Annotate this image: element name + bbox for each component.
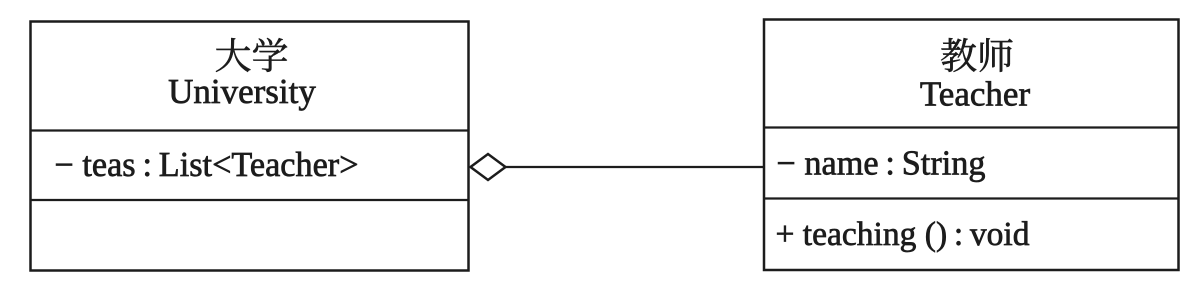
class box Teacher (outer rect) [764,20,1179,271]
divider University name/attributes [31,129,469,131]
svg-text:− name : String: − name : String [777,145,986,183]
svg-text:− teas : List<Teacher>: − teas : List<Teacher> [55,146,359,184]
aggregation diamond (open, at University end) [471,154,506,180]
svg-text:+ teaching () : void: + teaching () : void [776,216,1030,253]
class box University (outer rect) [31,22,469,271]
divider Teacher attributes/methods [764,197,1179,199]
wire: aggregation association line [504,166,765,168]
class name 大学 [216,38,287,72]
class name 教师 [941,38,1012,72]
svg-text:Teacher: Teacher [920,75,1031,114]
svg-text:University: University [168,72,316,111]
divider University attributes/methods [31,199,469,201]
divider Teacher name/attributes [764,126,1179,128]
